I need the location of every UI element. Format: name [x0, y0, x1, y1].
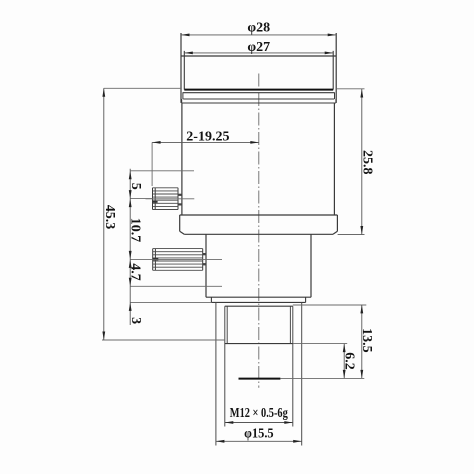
- base band (flange): [180, 215, 338, 234]
- svg-text:4.7: 4.7: [128, 263, 143, 281]
- dimension D27 line: [184, 52, 333, 54]
- pin P1 centerline: [146, 198, 195, 200]
- extension line right of base band bottom: [338, 234, 365, 236]
- svg-text:10.7: 10.7: [128, 218, 143, 243]
- svg-text:45.3: 45.3: [102, 205, 117, 230]
- pin P2 ribs: [153, 249, 203, 271]
- dimension 2-19.25 line: [152, 141, 259, 143]
- port face thick line: [239, 378, 281, 380]
- washer / shoulder step: [211, 297, 305, 302]
- dimension D28 line: [181, 34, 336, 36]
- dimension 25.8 line: [361, 89, 363, 235]
- extension line right of body top: [336, 88, 364, 90]
- cap inner walls (D27): [184, 51, 333, 90]
- pin P1 center notch: [153, 201, 158, 203]
- svg-text:φ28: φ28: [247, 21, 270, 36]
- dimension 45.3 line: [103, 88, 105, 340]
- pin P2 rib end: [202, 249, 204, 271]
- pin P1 rib end: [177, 188, 179, 210]
- pin P1 ribs: [153, 188, 179, 210]
- dimension 13.5 top extension: [293, 304, 367, 306]
- svg-text:25.8: 25.8: [360, 150, 375, 175]
- dimension 6.2 top extension: [293, 343, 347, 345]
- pin P2 left cap: [153, 249, 156, 271]
- tick line for 3 bottom / washer extension: [130, 301, 211, 303]
- tick line at pin P1 center: [130, 198, 152, 200]
- svg-text:13.5: 13.5: [359, 328, 374, 353]
- pin P2 centerline: [130, 258, 222, 260]
- tick line for 4.7 bottom: [130, 285, 222, 287]
- pin P1 left cap: [153, 188, 156, 210]
- shared bottom extension for 13.5 and 6.2: [280, 377, 364, 379]
- thread bottom line: [225, 343, 293, 345]
- pin P1 mounting nubs: [178, 194, 182, 196]
- port column sides (D15.5) doubling as extension lines: [216, 302, 302, 445]
- dimension 2-19.25 extension: [151, 142, 153, 186]
- body top thick line: [184, 89, 333, 91]
- svg-text:2-19.25: 2-19.25: [186, 129, 229, 144]
- svg-text:5: 5: [128, 183, 143, 190]
- lower body (connector housing): [206, 234, 311, 297]
- centerline vertical axis: [258, 74, 260, 388]
- feature line above pin P1: [130, 170, 194, 172]
- pin P2 mounting nubs: [203, 253, 207, 255]
- thread M12 inner root lines: [227, 306, 290, 343]
- svg-text:M12 × 0.5-6g: M12 × 0.5-6g: [230, 406, 288, 421]
- dimension D15.5 line: [216, 440, 302, 442]
- pin P2 center notch: [153, 258, 159, 260]
- dimension 13.5 line: [361, 305, 363, 379]
- main body sides: [182, 103, 335, 215]
- cap rim rings: [182, 93, 336, 103]
- thread M12 outer edges doubling as extension lines: [225, 306, 293, 426]
- svg-text:φ15.5: φ15.5: [244, 427, 274, 442]
- thread top line: [225, 305, 293, 307]
- tick line for 45.3 bottom: [102, 339, 225, 341]
- cap outline (top hat, D28): [181, 33, 336, 103]
- extension line left of body top: [104, 87, 181, 89]
- svg-text:6.2: 6.2: [342, 352, 357, 370]
- dimension M12 line: [225, 422, 293, 424]
- rim side connectors: [182, 93, 336, 103]
- svg-text:φ27: φ27: [247, 40, 270, 55]
- dimension 6.2 line: [343, 344, 345, 379]
- svg-text:3: 3: [128, 317, 143, 324]
- left chained dimension line (5 / 10.7 / 4.7 / 3): [129, 169, 131, 325]
